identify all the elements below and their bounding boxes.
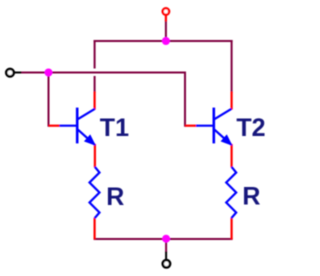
svg-text:R: R xyxy=(242,183,260,211)
node left input junction xyxy=(45,69,53,77)
pin T1 base (red) xyxy=(49,125,60,127)
pin R1 bottom (red) xyxy=(93,218,95,240)
pin T2 emitter (red) xyxy=(231,144,233,167)
svg-text:T1: T1 xyxy=(100,114,129,142)
pin T2 base (red) xyxy=(185,125,197,127)
wire base rail xyxy=(21,72,186,74)
terminal top supply (open circle, red) xyxy=(163,8,169,14)
resistor R (left) xyxy=(90,167,100,218)
node top rail junction xyxy=(162,37,170,45)
terminal bottom (open circle) xyxy=(163,252,170,268)
node bottom rail junction xyxy=(162,235,170,243)
transistor T1 xyxy=(59,108,95,145)
wire top rail xyxy=(94,40,233,42)
wire T1 base drop xyxy=(48,72,50,127)
pin R2 bottom (red) xyxy=(231,218,233,240)
wire left collector riser upper (broken at crossing) xyxy=(94,40,96,69)
wire bottom terminal stub xyxy=(165,238,167,252)
wire right collector riser xyxy=(231,40,233,93)
pin T1 collector (red) xyxy=(93,92,95,110)
resistor R (right) xyxy=(226,167,236,218)
wire T2 base drop xyxy=(184,72,186,127)
terminal left input (open circle) xyxy=(6,69,21,77)
svg-text:T2: T2 xyxy=(236,114,265,142)
wire left collector riser lower xyxy=(94,76,96,93)
pin T1 emitter (red) xyxy=(94,144,96,167)
pin T2 collector (red) xyxy=(231,92,233,110)
svg-text:R: R xyxy=(106,183,124,211)
pin top terminal (red) xyxy=(165,16,167,22)
wire top terminal stub xyxy=(165,21,167,43)
wire bottom rail xyxy=(94,238,233,240)
transistor T2 xyxy=(196,108,232,145)
